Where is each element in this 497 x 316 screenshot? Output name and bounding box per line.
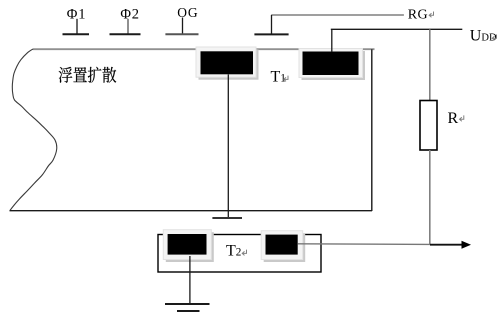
- T1 left diffusion frame (with shadow): [196, 47, 259, 80]
- gate electrode bar of T2: [212, 217, 242, 219]
- substrate bottom line: [10, 210, 373, 212]
- pilcrow return mark after T2: [242, 250, 246, 256]
- wire UDD to T1 drain: [331, 29, 333, 52]
- electrode bar Φ2: [110, 33, 141, 35]
- substrate top line: [33, 48, 375, 50]
- svg-text:Φ2: Φ2: [120, 6, 139, 22]
- output wire from T2 drain: [298, 243, 430, 246]
- wire RG vertical to T1 gate: [271, 15, 273, 34]
- T2 right diffusion frame (with shadow): [261, 231, 305, 262]
- ground bar 1: [165, 303, 210, 305]
- svg-text:R: R: [448, 110, 459, 127]
- pilcrow return mark after R: [460, 115, 464, 121]
- gate electrode bar of T1: [254, 33, 288, 35]
- electrode bar OG: [165, 33, 198, 35]
- T1 right diffusion frame (with shadow): [299, 49, 365, 81]
- output wire to arrow: [430, 244, 462, 246]
- resistor wire lower: [429, 150, 431, 245]
- resistor wire upper: [429, 29, 431, 100]
- electrode stem Φ1: [76, 19, 78, 34]
- pilcrow return mark after T1: [284, 76, 288, 82]
- ground bar 2: [177, 310, 200, 312]
- electrode stem Φ2: [127, 19, 129, 34]
- substrate right edge: [371, 49, 373, 211]
- svg-text:OG: OG: [177, 5, 198, 20]
- output arrowhead: [462, 241, 472, 249]
- wire UDD rail: [331, 28, 463, 30]
- T2 substrate box: [158, 235, 321, 273]
- svg-text:RG: RG: [408, 8, 428, 23]
- floating diffusion label 浮置扩散: [59, 67, 117, 83]
- pilcrow return mark after UDD (clipped): [492, 35, 496, 41]
- wire T2 source to ground: [189, 256, 191, 304]
- electrode stem OG: [182, 18, 184, 34]
- substrate left break curve: [10, 49, 57, 210]
- wire RG horizontal: [271, 14, 404, 16]
- electrode bar Φ1: [63, 33, 90, 35]
- resistor R body: [420, 101, 437, 151]
- wire T1 source (floating diffusion) down to T2 gate: [227, 75, 229, 218]
- pilcrow return mark after RG: [429, 12, 433, 18]
- T2 left diffusion frame (with shadow): [163, 230, 214, 262]
